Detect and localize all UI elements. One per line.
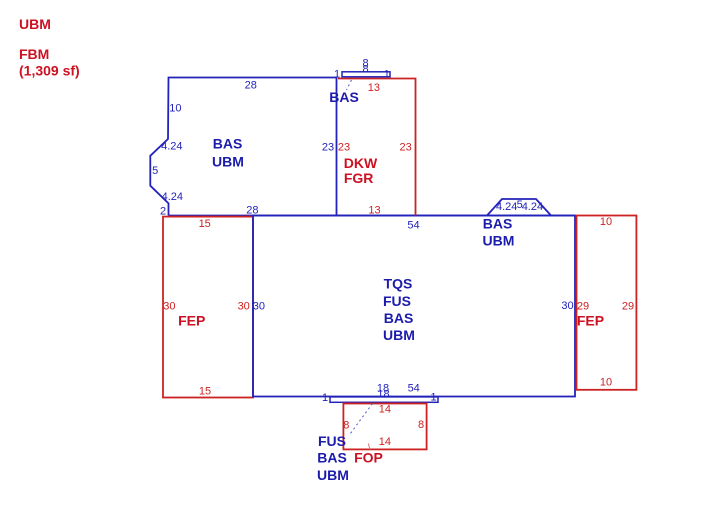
svg-text:UBM: UBM [212,154,244,170]
svg-text:4.24: 4.24 [161,141,182,153]
porch outline FOP (red rect) [343,404,426,450]
svg-text:29: 29 [622,300,634,312]
svg-text:30: 30 [561,300,573,312]
svg-text:BAS: BAS [384,310,414,326]
svg-text:FEP: FEP [178,313,205,329]
svg-text:2: 2 [160,206,166,218]
svg-text:30: 30 [238,301,250,313]
svg-text:30: 30 [163,301,175,313]
svg-text:FEP: FEP [577,313,604,329]
svg-text:4.24: 4.24 [522,201,543,213]
svg-text:10: 10 [169,103,181,115]
svg-text:FUS: FUS [318,433,346,449]
svg-text:29: 29 [577,300,589,312]
svg-text:FGR: FGR [344,170,374,186]
svg-text:28: 28 [245,79,257,91]
svg-text:1: 1 [430,392,436,404]
bay trapezoid top of middle room (blue) [487,199,551,216]
svg-text:DKW: DKW [344,155,378,171]
svg-text:UBM: UBM [317,467,349,483]
svg-text:5: 5 [152,165,158,177]
svg-text:10: 10 [600,376,612,388]
svg-text:14: 14 [379,404,391,416]
svg-text:UBM: UBM [483,232,515,248]
svg-text:15: 15 [199,386,211,398]
svg-text:54: 54 [408,382,420,394]
svg-text:1: 1 [334,68,340,80]
svg-text:FBM: FBM [19,46,49,62]
svg-text:UBM: UBM [19,16,51,32]
svg-text:8: 8 [363,63,369,75]
svg-text:BAS: BAS [483,216,513,232]
svg-text:14: 14 [379,436,391,448]
wire long blue boundary y=215.5 [169,215,576,217]
svg-text:13: 13 [368,204,380,216]
svg-text:FUS: FUS [383,293,411,309]
svg-text:8: 8 [343,420,349,432]
svg-text:30: 30 [253,300,265,312]
dashed stair line top [347,80,352,90]
room outline FEP left (red rect) [163,217,253,398]
dashed stair line bottom [350,404,373,435]
svg-text:BAS: BAS [213,136,243,152]
tick on FOP bottom edge [368,444,370,450]
room outline BAS/UBM top-left (blue polyline with left notch) [150,78,336,216]
svg-text:BAS: BAS [329,89,359,105]
svg-text:10: 10 [600,216,612,228]
svg-text:(1,309 sf): (1,309 sf) [19,63,80,79]
stoop bracket bottom (blue thin rect) [330,397,438,402]
svg-text:15: 15 [199,218,211,230]
svg-text:FOP: FOP [354,450,383,466]
svg-text:TQS: TQS [384,276,413,292]
svg-text:4.24: 4.24 [496,201,517,213]
room outline middle TQS/FUS/BAS/UBM (blue rect) [253,216,575,397]
svg-text:54: 54 [407,220,419,232]
svg-text:23: 23 [338,141,350,153]
svg-text:1: 1 [322,392,328,404]
svg-text:1: 1 [384,68,390,80]
svg-text:28: 28 [246,204,258,216]
svg-text:23: 23 [322,141,334,153]
svg-text:23: 23 [399,141,411,153]
room outline DKW/FGR (red polyline) [338,79,416,216]
svg-text:UBM: UBM [383,327,415,343]
svg-text:18: 18 [377,389,389,401]
stoop bracket top (blue thin rect) [342,72,390,77]
svg-text:4.24: 4.24 [162,191,183,203]
svg-text:8: 8 [418,419,424,431]
room outline FEP right (red rect) [577,216,637,390]
svg-text:13: 13 [368,82,380,94]
svg-text:BAS: BAS [317,450,347,466]
